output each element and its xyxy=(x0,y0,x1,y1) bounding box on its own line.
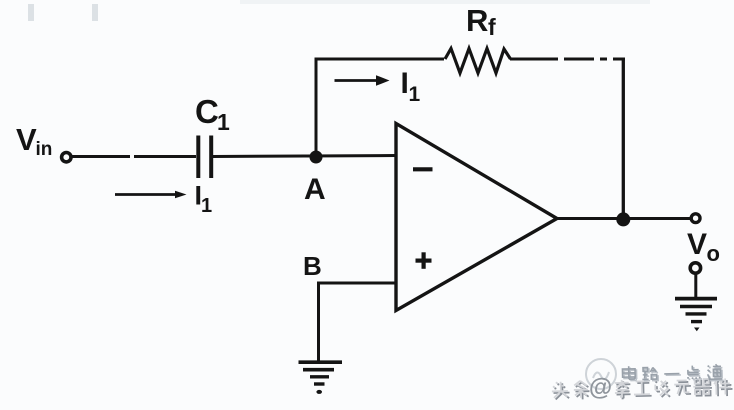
svg-text:V: V xyxy=(16,122,37,157)
wire Vin to C1 xyxy=(72,155,197,158)
op-amp minus sign xyxy=(413,167,433,171)
wire B to non-inverting input xyxy=(317,282,396,285)
label C1 xyxy=(195,93,230,135)
svg-text:1: 1 xyxy=(409,83,421,106)
svg-text:1: 1 xyxy=(217,109,230,135)
svg-text:in: in xyxy=(36,139,53,160)
resistor Rf xyxy=(445,49,511,74)
svg-text:B: B xyxy=(303,251,322,281)
op-amp U1 xyxy=(396,124,557,311)
label Rf xyxy=(466,3,496,40)
svg-text:C: C xyxy=(195,93,219,130)
terminal above ground xyxy=(690,263,700,273)
faint cut-off mark 1 top-left xyxy=(28,4,34,21)
label I1 (input) xyxy=(195,181,213,218)
label Vin xyxy=(16,122,52,160)
wire feedback top left xyxy=(315,58,445,61)
svg-text:f: f xyxy=(488,14,496,40)
svg-text:1: 1 xyxy=(201,195,212,217)
ground (Vo) xyxy=(675,299,717,322)
wire C1 to node A and to op-amp inverting input xyxy=(213,156,396,157)
current arrow I1 (input) xyxy=(115,191,187,198)
wire op-amp output xyxy=(557,217,690,220)
label I1 (feedback) xyxy=(401,67,421,106)
svg-text:o: o xyxy=(707,241,720,266)
watermark text large xyxy=(552,371,733,402)
ground (B) xyxy=(299,362,343,384)
current arrow I1 (feedback) xyxy=(335,75,390,86)
wire feedback top right (broken scan dashes) xyxy=(510,58,625,61)
wire feedback vertical right xyxy=(622,58,625,215)
svg-text:A: A xyxy=(304,173,326,206)
wire Vo terminal to ground xyxy=(694,274,697,298)
faint scan smudge top edge xyxy=(240,0,650,4)
capacitor C1 xyxy=(198,136,211,179)
wire feedback vertical left xyxy=(315,58,318,152)
faint cut-off mark 2 top-left xyxy=(92,4,98,21)
wire B vertical to ground xyxy=(317,283,320,361)
watermark text small xyxy=(622,364,723,383)
svg-text:V: V xyxy=(687,228,707,261)
svg-text:R: R xyxy=(466,3,488,38)
watermark logo xyxy=(586,359,616,389)
node A xyxy=(310,151,323,164)
op-amp plus sign xyxy=(416,252,432,268)
svg-text:@: @ xyxy=(588,374,612,402)
label Vo xyxy=(687,228,720,266)
input terminal xyxy=(62,153,71,162)
output terminal xyxy=(691,214,700,223)
node output xyxy=(616,212,630,226)
